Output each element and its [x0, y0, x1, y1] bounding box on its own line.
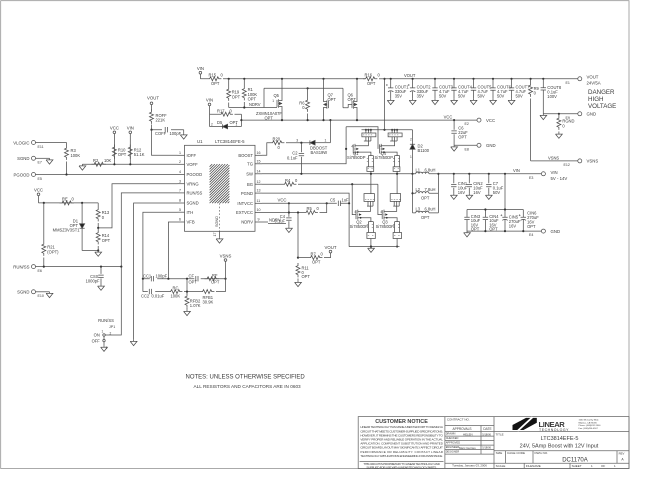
svg-text:13: 13: [257, 189, 261, 193]
svg-text:5: 5: [179, 208, 181, 212]
op IC U1 LTC3814EFE-5 body: [185, 139, 256, 231]
svg-text:OPT: OPT: [189, 279, 198, 284]
title block outer: [358, 417, 629, 469]
svg-text:50V: 50V: [439, 94, 447, 99]
svg-text:LTC3814EFE-5: LTC3814EFE-5: [215, 139, 245, 144]
ground at COUT5: [470, 99, 477, 105]
node BG split: [351, 183, 353, 185]
ground at COFF: [180, 130, 187, 139]
svg-text:REV: REV: [619, 451, 625, 455]
node R21/RUNSS: [43, 266, 45, 268]
svg-text:16V: 16V: [458, 190, 466, 195]
ground at C6: [451, 145, 458, 151]
svg-text:LTC3814EFE-5: LTC3814EFE-5: [541, 436, 579, 442]
power flag VOUT at R7: [325, 245, 337, 253]
wire R20 to DBOOST node: [286, 142, 310, 144]
svg-text:0: 0: [295, 178, 298, 183]
transistor Q4 Si7850DP: [375, 129, 403, 175]
svg-text:OPT: OPT: [421, 215, 430, 220]
svg-text:CONTRACT NO.: CONTRACT NO.: [447, 418, 470, 422]
svg-text:1: 1: [614, 464, 616, 468]
wire EXTVCC to R7: [297, 213, 299, 258]
wire RUN/SS E6 line: [36, 266, 122, 268]
node VIN drop to CIN bank: [504, 173, 506, 175]
ground at SGND pin8 route: [130, 340, 137, 346]
svg-text:0: 0: [378, 73, 381, 78]
title block approvals grid: [445, 417, 494, 469]
svg-text:OPT: OPT: [232, 94, 241, 99]
capacitor C2: [287, 143, 304, 174]
svg-text:OPT: OPT: [248, 96, 257, 101]
resistor R5: [304, 206, 320, 214]
svg-text:TECHNOLOGY APPLICATIONS ENGINE: TECHNOLOGY APPLICATIONS ENGINEERING FOR …: [360, 454, 443, 458]
svg-text:OFF: OFF: [92, 338, 101, 343]
svg-text:NOTES: UNLESS OTHERWISE SPECI: NOTES: UNLESS OTHERWISE SPECIFIED: [186, 374, 306, 380]
inductor L3: [413, 207, 439, 221]
svg-text:SGND: SGND: [187, 201, 199, 206]
wire CIN bank bottom rail to E4: [467, 230, 541, 232]
svg-text:SHEET: SHEET: [572, 464, 582, 468]
title block right grid: [494, 432, 629, 469]
terminal E8 GND: [465, 143, 496, 151]
svg-text:OPT: OPT: [527, 224, 536, 229]
transistor Q6 OPT: [348, 79, 358, 120]
svg-text:NDRV: NDRV: [241, 220, 253, 225]
svg-text:100pF: 100pF: [156, 273, 168, 278]
wire RUN/SS route: [121, 193, 177, 267]
wire R16 to VOUT rail: [379, 78, 385, 80]
wire SW line pin14 to inductors: [262, 173, 413, 175]
resistor R9: [529, 78, 540, 161]
svg-text:VCC: VCC: [444, 115, 453, 120]
resistor R12: [128, 145, 144, 159]
resistor RF: [205, 273, 220, 284]
capacitor CC1: [143, 273, 168, 281]
ground at RFB2: [184, 310, 191, 316]
node R3/PGOOD junction: [65, 173, 67, 175]
capacitor CC2: [141, 289, 165, 298]
U1 pin 5 ITH: [178, 208, 194, 215]
svg-text:VOFF: VOFF: [187, 162, 199, 167]
resistor R6: [299, 88, 309, 120]
svg-text:SIZE: SIZE: [496, 451, 503, 455]
svg-text:VOUT: VOUT: [147, 96, 159, 101]
svg-text:ON: ON: [94, 333, 100, 338]
resistor R16: [363, 73, 381, 87]
wire VIN line to E3: [438, 173, 541, 175]
node CIN5 bottom: [504, 230, 506, 232]
svg-text:CAGE CODE: CAGE CODE: [507, 451, 525, 455]
node JP1/RUNSS: [120, 266, 122, 268]
svg-text:Fax: (408)434-0507: Fax: (408)434-0507: [579, 428, 599, 430]
node CIN6 bottom: [522, 230, 524, 232]
svg-text:(OPT): (OPT): [47, 249, 59, 254]
U1 internal SGND dashes: [215, 203, 219, 231]
svg-text:VFB: VFB: [187, 220, 195, 225]
ground at D1/R14: [95, 251, 102, 257]
svg-text:16V: 16V: [473, 190, 481, 195]
svg-text:VIN: VIN: [551, 170, 558, 175]
U1 pin 16 BOOST: [238, 151, 262, 158]
svg-text:50V: 50V: [493, 190, 501, 195]
svg-text:BAS19W: BAS19W: [311, 150, 328, 155]
resistor R3: [65, 143, 81, 175]
svg-text:L1: L1: [416, 168, 421, 173]
svg-text:4: 4: [179, 170, 181, 174]
svg-text:VCC: VCC: [486, 118, 495, 123]
svg-text:A: A: [621, 457, 624, 461]
U1 pin 3 VRNG: [178, 179, 199, 186]
node VFB row1: [167, 278, 169, 280]
svg-text:PGND: PGND: [241, 191, 253, 196]
svg-text:12: 12: [257, 180, 261, 184]
svg-text:R5: R5: [307, 206, 313, 211]
svg-text:8: 8: [179, 199, 181, 203]
capacitor CIN1: [451, 173, 468, 195]
jumper JP1 RUN/SS: [92, 318, 116, 350]
U1 pin 2 VOFF: [178, 160, 199, 167]
svg-text:2: 2: [211, 122, 213, 126]
zener D1 MMSZ3V3ST1: [53, 203, 85, 251]
ground at E7: [46, 158, 53, 164]
power flag VCC left: [110, 126, 119, 165]
resistor R21: [42, 203, 59, 267]
wire VLOGIC to R3: [36, 142, 67, 144]
svg-text:C5: C5: [330, 197, 336, 202]
wire TG route: [262, 127, 346, 164]
U1 pin 7 RUN/SS: [178, 189, 203, 196]
capacitor CSS: [86, 267, 104, 285]
wire compensation row 2: [143, 291, 226, 293]
node SW/C2: [300, 173, 302, 175]
svg-text:CHECKED: CHECKED: [446, 436, 459, 440]
wire D1/R14 bottom: [82, 250, 98, 252]
node SW / L bracket: [411, 173, 413, 175]
svg-text:OPT: OPT: [458, 134, 467, 139]
node R6 bottom VCC: [307, 119, 309, 121]
svg-text:OPT: OPT: [211, 81, 220, 86]
U1 pin 17 SGND bottom: [213, 231, 220, 237]
resistor R15: [207, 73, 224, 86]
ground at CIN1: [450, 194, 457, 200]
node CSS/RUNSS: [100, 266, 102, 268]
wire C6 to E8: [454, 144, 477, 146]
svg-text:OPT: OPT: [211, 279, 220, 284]
logo Linear Technology: [513, 417, 570, 432]
wire SGND pin8 route: [134, 203, 178, 340]
svg-text:4: 4: [380, 145, 382, 149]
svg-text:2: 2: [410, 138, 412, 142]
svg-text:0: 0: [230, 108, 233, 113]
svg-text:RF: RF: [212, 273, 218, 278]
svg-text:ALL RESISTORS AND CAPACITORS A: ALL RESISTORS AND CAPACITORS ARE IN 0603: [194, 384, 302, 389]
U1 pin 15 TG: [247, 159, 262, 166]
ground at COUT6: [490, 99, 497, 105]
wire VSNS line to E12: [531, 160, 578, 162]
node Q7 drain: [322, 78, 324, 80]
svg-text:CC1: CC1: [143, 273, 152, 278]
node Q5 source VCC: [281, 119, 283, 121]
node C5/PGND vertical: [348, 202, 350, 204]
resistor R10: [112, 145, 126, 159]
svg-text:E7: E7: [38, 161, 42, 165]
svg-text:INTVCC: INTVCC: [237, 201, 253, 206]
node PGND rail ground: [370, 246, 372, 248]
resistor R11: [296, 263, 310, 281]
node Q7 source VCC: [322, 119, 324, 121]
svg-text:1: 1: [325, 138, 327, 142]
node EXTVCC/C4 crossing: [288, 211, 290, 213]
svg-text:0: 0: [278, 145, 281, 150]
svg-text:4: 4: [380, 210, 382, 214]
wire NDRV gate bracket: [264, 88, 348, 108]
terminal E1 VOUT: [566, 75, 601, 86]
svg-text:VIN: VIN: [206, 98, 213, 103]
text customer notice body: [360, 425, 443, 469]
svg-text:E2: E2: [465, 122, 469, 126]
node ROFF/COFF: [150, 129, 152, 131]
svg-text:L3: L3: [416, 207, 421, 212]
node VOUT rail corner: [383, 78, 385, 80]
capacitor CF: [189, 274, 199, 285]
svg-text:R2: R2: [93, 158, 99, 163]
text title cell: [496, 432, 599, 449]
svg-text:Marc Gurries: Marc Gurries: [459, 446, 476, 450]
svg-text:5V - 14V: 5V - 14V: [551, 176, 568, 181]
wire PGND rail: [349, 246, 399, 248]
svg-text:APPROVED: APPROVED: [446, 441, 461, 445]
svg-text:Si7850DP: Si7850DP: [375, 155, 394, 160]
U1 pin 12 BG: [247, 180, 262, 187]
svg-text:1: 1: [179, 151, 181, 155]
capacitor COUT2 polarized: [408, 78, 431, 99]
capacitor COUT5: [471, 78, 492, 99]
svg-text:50V: 50V: [516, 94, 524, 99]
text NOTES: [186, 374, 306, 389]
transistor Q1 Si7850DP: [347, 129, 376, 175]
diode DBOOST BAS19W: [310, 138, 331, 155]
svg-text:221K: 221K: [156, 118, 166, 123]
terminal E4 GND: [529, 229, 560, 237]
ground at COUT8: [540, 114, 547, 120]
svg-text:BG: BG: [247, 182, 253, 187]
capacitor CIN2: [467, 173, 484, 195]
svg-text:Milpitas, CA 95035: Milpitas, CA 95035: [579, 421, 598, 424]
svg-text:35V: 35V: [417, 94, 425, 99]
power flag VIN left: [127, 126, 134, 165]
wire EXTVCC line: [262, 203, 327, 212]
wire BG line: [262, 183, 378, 185]
svg-text:4: 4: [354, 210, 356, 214]
svg-text:VCC: VCC: [277, 198, 286, 203]
svg-text:OPT: OPT: [348, 97, 357, 102]
svg-text:4: 4: [351, 145, 353, 149]
resistor RC: [168, 285, 182, 298]
title block customer notice divider: [444, 417, 446, 469]
power flag VIN top: [197, 66, 207, 79]
svg-text:3: 3: [179, 179, 181, 183]
resistor R2: [92, 158, 112, 166]
svg-text:SCALE: SCALE: [496, 464, 506, 468]
svg-text:RE: RE: [62, 196, 68, 201]
svg-text:VCC: VCC: [110, 126, 119, 131]
svg-text:RUN/SS: RUN/SS: [98, 318, 114, 323]
node CIN4 bottom: [484, 230, 486, 232]
resistor R13: [96, 203, 110, 228]
capacitor COUT7: [509, 78, 530, 99]
svg-text:NDRV: NDRV: [249, 102, 261, 107]
svg-text:VIN: VIN: [127, 126, 134, 131]
svg-text:VIN: VIN: [197, 66, 204, 71]
svg-text:VSNS: VSNS: [220, 253, 232, 258]
svg-text:GND: GND: [486, 143, 496, 148]
capacitor CIN6 polarized: [519, 210, 539, 231]
wire NDRV line: [229, 107, 277, 109]
capacitor COUT1 polarized: [386, 78, 409, 99]
svg-text:1: 1: [102, 330, 104, 334]
terminal E5 PGOOD: [14, 172, 42, 181]
svg-text:0: 0: [317, 206, 320, 211]
svg-text:COFF: COFF: [155, 131, 167, 136]
svg-text:6.8uH: 6.8uH: [425, 168, 436, 173]
capacitor C6: [451, 120, 468, 145]
svg-text:VIN: VIN: [513, 168, 520, 173]
ground at U1 pin 17: [216, 237, 223, 243]
svg-text:APPROVALS: APPROVALS: [452, 427, 471, 431]
wire VOFF net: [82, 163, 177, 165]
svg-text:16V: 16V: [509, 223, 517, 228]
svg-text:IOFF: IOFF: [187, 153, 197, 158]
node Q6 source VCC: [356, 119, 358, 121]
svg-text:R16: R16: [365, 73, 373, 78]
svg-text:100K: 100K: [171, 293, 181, 298]
wire PGND pin13 route: [262, 193, 349, 247]
wire VRNG route: [98, 184, 177, 228]
svg-text:TITLE: TITLE: [496, 432, 504, 436]
svg-text:1uF: 1uF: [342, 197, 350, 202]
svg-text:OPT: OPT: [265, 115, 274, 120]
ground at RGND: [556, 133, 563, 139]
svg-text:E8: E8: [465, 147, 469, 151]
capacitor COUT4: [451, 78, 472, 99]
svg-text:0: 0: [534, 91, 537, 96]
node VCC/R21: [43, 202, 45, 204]
node row1 right: [224, 278, 226, 280]
node TG Q1 gate: [345, 148, 347, 150]
svg-text:0: 0: [102, 215, 105, 220]
svg-text:100V: 100V: [547, 94, 557, 99]
diode D5 OPT: [210, 114, 242, 129]
ground at COUT1: [387, 99, 394, 105]
svg-text:OPT: OPT: [302, 274, 311, 279]
terminal E9 GND: [566, 112, 597, 120]
svg-text:E3: E3: [529, 176, 533, 180]
svg-text:DESIGNER: DESIGNER: [446, 450, 460, 454]
svg-text:PGOOD: PGOOD: [187, 172, 203, 177]
node R19 top: [228, 78, 230, 80]
svg-text:1.07K: 1.07K: [190, 303, 201, 308]
svg-text:1: 1: [272, 99, 274, 103]
node R12/VOFF: [129, 163, 131, 165]
text size row: [496, 451, 625, 463]
svg-text:0.1uF: 0.1uF: [287, 155, 298, 160]
resistor RFB2: [185, 292, 201, 310]
text DANGER HIGH VOLTAGE: [588, 89, 616, 110]
ground at R2 left: [79, 164, 86, 170]
svg-text:VRNG: VRNG: [187, 181, 199, 186]
transistor Q3 Si7850DP: [376, 173, 402, 248]
node C6 top: [453, 119, 455, 121]
svg-text:OPT: OPT: [367, 81, 376, 86]
svg-text:5/18/06: 5/18/06: [482, 432, 491, 436]
svg-text:D5: D5: [217, 120, 223, 125]
wire VIN drop vertical: [504, 174, 506, 210]
wire E10 to ground: [36, 291, 50, 293]
svg-text:DC1170A: DC1170A: [562, 457, 588, 463]
svg-text:100K: 100K: [71, 153, 81, 158]
svg-text:PGOOD: PGOOD: [14, 172, 30, 177]
svg-text:7.8uH: 7.8uH: [425, 187, 436, 192]
svg-text:50V: 50V: [458, 94, 466, 99]
capacitor CIN3: [464, 214, 481, 232]
svg-text:SGND: SGND: [215, 216, 219, 227]
node CIN5 top: [504, 208, 506, 210]
node R1 NDRV: [243, 106, 245, 108]
ground at R11: [295, 281, 302, 287]
capacitor C4: [275, 203, 292, 226]
svg-text:1000pF: 1000pF: [86, 279, 100, 284]
transistor Q7 OPT: [324, 79, 337, 120]
wire compensation row 1: [143, 278, 226, 280]
svg-text:CC2: CC2: [141, 293, 150, 298]
net label NDRV at pin 9: [262, 218, 286, 224]
svg-text:EXTVCC: EXTVCC: [236, 210, 253, 215]
svg-text:TG: TG: [247, 162, 253, 167]
svg-text:CUSTOMER NOTICE: CUSTOMER NOTICE: [375, 419, 428, 425]
wire VFB route: [168, 222, 177, 279]
svg-text:6: 6: [179, 218, 181, 222]
svg-text:ENGINEER: ENGINEER: [446, 445, 460, 449]
node R13/R14/VRNG: [97, 227, 99, 229]
power flag VIN at R17: [206, 98, 213, 115]
U1 pin 11 INTVCC: [237, 199, 262, 206]
text logo address: [579, 419, 602, 430]
ground at CIN2: [466, 194, 473, 200]
svg-text:RUN/SS: RUN/SS: [187, 191, 203, 196]
svg-text:Si7850DP: Si7850DP: [350, 224, 369, 229]
customer notice separator: [360, 461, 444, 463]
svg-text:U1: U1: [197, 139, 203, 144]
wire INTVCC line: [262, 202, 337, 204]
svg-text:VOLTAGE: VOLTAGE: [588, 103, 616, 110]
resistor RFB1: [200, 290, 214, 305]
svg-text:0: 0: [72, 196, 75, 201]
ground at COUT4: [451, 99, 458, 105]
svg-text:MMSZ3V3ST1: MMSZ3V3ST1: [53, 228, 81, 233]
svg-text:SGND: SGND: [17, 290, 29, 295]
ground at CSS: [98, 285, 105, 291]
svg-text:R7: R7: [311, 251, 317, 256]
svg-text:5/18/06: 5/18/06: [482, 445, 491, 449]
U1 pin 4 PGOOD: [178, 170, 203, 177]
text scale row: [496, 464, 616, 468]
U1 pin 14 SW: [246, 169, 262, 176]
node INTVCC/R5: [326, 202, 328, 204]
wire VOUT vertical feed: [384, 79, 386, 130]
svg-text:RUN/SS: RUN/SS: [13, 264, 29, 269]
svg-text:HELEN: HELEN: [463, 433, 473, 437]
svg-text:E11: E11: [38, 145, 44, 149]
